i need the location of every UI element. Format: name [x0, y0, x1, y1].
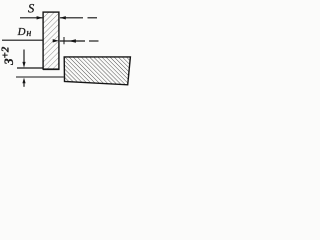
svg-text:D: D [17, 26, 26, 38]
svg-text:S: S [28, 1, 35, 15]
svg-text:н: н [26, 28, 31, 39]
